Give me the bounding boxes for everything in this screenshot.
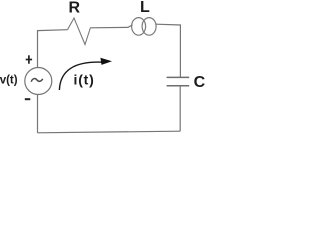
inductor L1 left loop (132, 18, 146, 36)
capacitor C1 top plate (167, 76, 190, 78)
current arrow i(t) (59, 62, 102, 90)
svg-text:i(t): i(t) (74, 72, 95, 88)
wire inductor to top-right corner (156, 24, 180, 77)
capacitor C1 bottom plate (167, 85, 190, 87)
svg-text:C: C (194, 74, 206, 91)
current arrow head (100, 58, 112, 65)
svg-text:v(t): v(t) (0, 74, 18, 86)
wire bottom (38, 131, 181, 133)
wire resistor to inductor (91, 25, 133, 28)
voltage source V1 sine symbol (31, 79, 43, 82)
plus polarity mark (26, 55, 32, 63)
wire top-left segment (38, 30, 68, 68)
minus polarity mark (25, 98, 31, 100)
svg-text:R: R (69, 0, 81, 17)
wire capacitor to bottom-right corner (179, 86, 181, 131)
wire bottom-left to source (37, 95, 39, 133)
inductor L1 right loop (142, 18, 156, 36)
svg-text:L: L (140, 0, 150, 16)
resistor R1 zigzag (68, 18, 91, 45)
voltage source V1 circle (25, 68, 52, 95)
